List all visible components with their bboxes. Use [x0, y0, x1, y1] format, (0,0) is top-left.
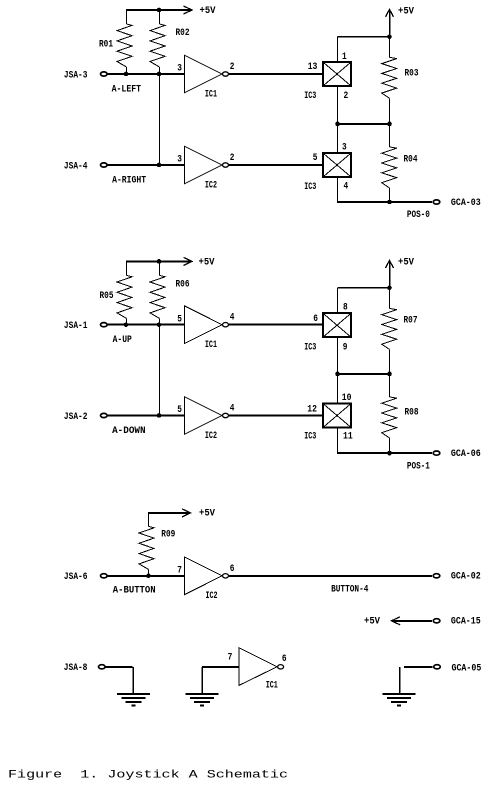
- svg-text:10: 10: [342, 392, 352, 403]
- svg-text:IC1: IC1: [205, 339, 217, 350]
- svg-text:8: 8: [343, 302, 348, 313]
- svg-text:R02: R02: [176, 27, 190, 38]
- svg-text:IC2: IC2: [206, 590, 218, 601]
- svg-text:+5V: +5V: [398, 257, 414, 268]
- svg-text:6: 6: [230, 563, 235, 574]
- svg-text:POS-1: POS-1: [407, 460, 430, 471]
- svg-text:A-UP: A-UP: [113, 334, 132, 345]
- svg-text:GCA-06: GCA-06: [451, 448, 481, 459]
- svg-text:4: 4: [230, 403, 235, 414]
- svg-text:2: 2: [230, 61, 235, 72]
- svg-text:+5V: +5V: [200, 5, 216, 16]
- svg-text:IC3: IC3: [304, 342, 316, 353]
- svg-text:2: 2: [344, 90, 349, 101]
- svg-text:A-DOWN: A-DOWN: [112, 425, 146, 436]
- svg-text:7: 7: [177, 565, 182, 576]
- svg-text:5: 5: [177, 404, 182, 415]
- svg-text:R05: R05: [100, 290, 114, 301]
- svg-text:4: 4: [344, 181, 349, 192]
- svg-text:JSA-6: JSA-6: [64, 571, 88, 582]
- svg-text:R04: R04: [404, 154, 418, 165]
- svg-text:6: 6: [313, 313, 318, 324]
- svg-text:R06: R06: [176, 278, 190, 289]
- svg-text:3: 3: [177, 154, 182, 165]
- svg-text:1: 1: [342, 51, 347, 62]
- svg-text:3: 3: [177, 63, 182, 74]
- svg-text:GCA-05: GCA-05: [452, 662, 482, 673]
- svg-text:JSA-2: JSA-2: [64, 411, 88, 422]
- svg-text:GCA-15: GCA-15: [451, 616, 481, 627]
- svg-text:IC3: IC3: [304, 90, 316, 101]
- svg-text:GCA-03: GCA-03: [451, 197, 481, 208]
- svg-text:9: 9: [343, 342, 348, 353]
- svg-text:JSA-1: JSA-1: [64, 320, 88, 331]
- svg-text:R03: R03: [405, 68, 419, 79]
- svg-text:Figure 1. Joystick A Schemati: Figure 1. Joystick A Schematic: [8, 769, 288, 781]
- svg-text:4: 4: [230, 312, 235, 323]
- svg-text:IC2: IC2: [205, 179, 217, 190]
- svg-text:JSA-8: JSA-8: [64, 662, 88, 673]
- svg-text:13: 13: [308, 61, 318, 72]
- svg-text:+5V: +5V: [398, 5, 414, 16]
- svg-text:+5V: +5V: [199, 257, 215, 268]
- svg-text:+5V: +5V: [364, 615, 380, 626]
- svg-text:GCA-02: GCA-02: [451, 571, 481, 582]
- svg-text:IC3: IC3: [304, 431, 316, 442]
- svg-text:A-BUTTON: A-BUTTON: [113, 585, 156, 596]
- svg-text:7: 7: [228, 652, 233, 663]
- svg-text:A-LEFT: A-LEFT: [112, 83, 142, 94]
- svg-text:A-RIGHT: A-RIGHT: [112, 174, 146, 185]
- svg-text:JSA-3: JSA-3: [64, 69, 88, 80]
- svg-text:6: 6: [282, 653, 287, 664]
- svg-text:IC2: IC2: [205, 430, 217, 441]
- svg-text:IC1: IC1: [266, 680, 278, 691]
- svg-text:IC1: IC1: [205, 88, 217, 99]
- svg-text:IC3: IC3: [304, 181, 316, 192]
- svg-text:R09: R09: [161, 529, 175, 540]
- svg-text:POS-0: POS-0: [407, 209, 430, 220]
- svg-text:11: 11: [343, 431, 353, 442]
- svg-text:+5V: +5V: [199, 508, 215, 519]
- svg-text:R01: R01: [99, 38, 113, 49]
- svg-text:5: 5: [313, 152, 318, 163]
- svg-text:BUTTON-4: BUTTON-4: [331, 584, 368, 595]
- svg-text:R08: R08: [405, 407, 419, 418]
- svg-text:JSA-4: JSA-4: [64, 160, 88, 171]
- svg-text:12: 12: [307, 404, 317, 415]
- svg-text:2: 2: [230, 152, 235, 163]
- svg-text:3: 3: [342, 142, 347, 153]
- svg-text:5: 5: [177, 313, 182, 324]
- svg-text:R07: R07: [404, 315, 418, 326]
